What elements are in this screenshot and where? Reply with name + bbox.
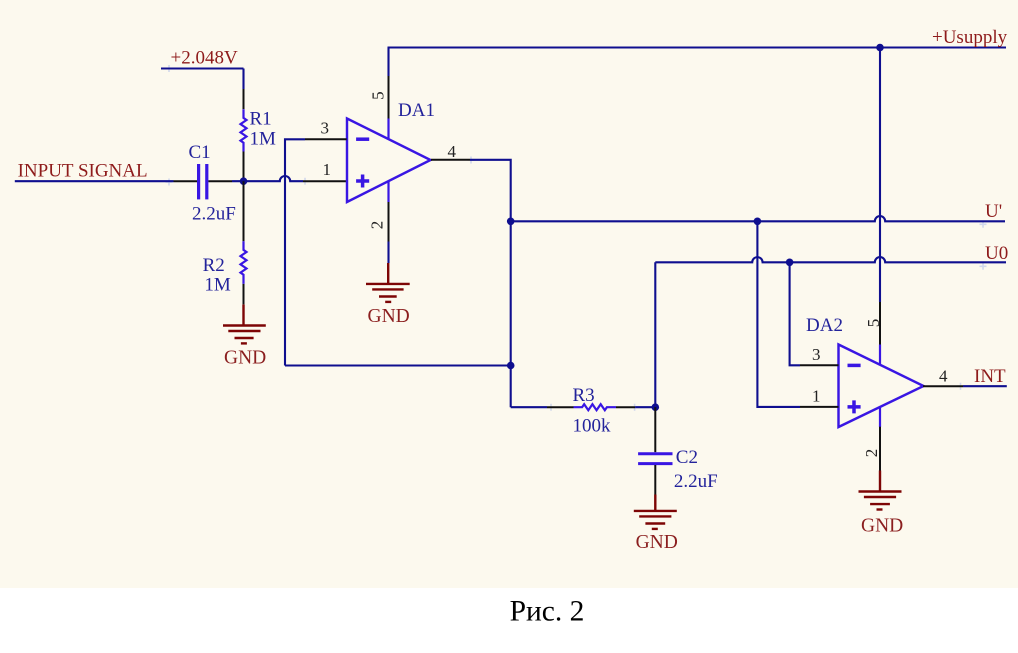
- svg-text:2: 2: [368, 221, 387, 230]
- svg-text:100k: 100k: [573, 415, 612, 436]
- wire loop bottom horizontal: [285, 364, 511, 366]
- svg-text:R1: R1: [250, 108, 272, 129]
- wire pin4 DA2 INT: [963, 385, 1007, 387]
- svg-text:C2: C2: [676, 447, 698, 468]
- faint grid crosses: [166, 65, 987, 411]
- wire pin4 DA1 to U': [470, 160, 511, 222]
- ground under DA2: [859, 471, 902, 510]
- pin 1 stub DA2: [800, 406, 839, 408]
- svg-text:U': U': [985, 201, 1002, 222]
- capacitor C1: [174, 142, 236, 225]
- svg-text:DA2: DA2: [806, 315, 843, 336]
- net U' wire: [511, 216, 1005, 221]
- svg-text:GND: GND: [861, 516, 903, 537]
- svg-text:2.2uF: 2.2uF: [674, 471, 718, 492]
- svg-text:5: 5: [369, 91, 388, 100]
- svg-text:C1: C1: [189, 142, 211, 163]
- wire +2.048V vertical to R1: [242, 69, 244, 90]
- svg-text:INT: INT: [974, 366, 1006, 387]
- pin 3 stub DA1: [305, 138, 347, 140]
- svg-text:DA1: DA1: [398, 100, 435, 121]
- resistor R1: [241, 89, 277, 181]
- svg-text:1: 1: [812, 387, 821, 406]
- wire pin3 DA2 to U0: [790, 262, 800, 365]
- node junction +Usupply: [876, 44, 884, 52]
- svg-text:4: 4: [939, 367, 948, 386]
- wire input signal: [15, 180, 174, 182]
- svg-text:5: 5: [864, 319, 883, 328]
- svg-text:3: 3: [321, 119, 330, 138]
- ground under DA1: [366, 263, 410, 302]
- svg-text:GND: GND: [224, 348, 266, 369]
- pin 2 stub DA1: [388, 202, 390, 242]
- wire output vertical down: [510, 221, 512, 407]
- wire to R3: [511, 406, 547, 408]
- svg-text:+2.048V: +2.048V: [171, 48, 238, 69]
- capacitor C2: [638, 407, 718, 494]
- svg-text:R2: R2: [203, 255, 225, 276]
- resistor R3: [547, 385, 635, 437]
- pin 3 stub DA2: [800, 364, 839, 366]
- wire pin1 DA2 to U': [757, 221, 800, 407]
- wire pin2 DA1 to gnd: [387, 242, 389, 264]
- pin 2 stub DA2: [879, 427, 881, 471]
- node junction R3/C2/U0: [652, 403, 660, 411]
- pin 5 stub DA1: [388, 76, 390, 119]
- svg-text:R3: R3: [573, 385, 595, 406]
- wire pin5 DA1 to +Usupply: [387, 48, 389, 77]
- wire +2.048V horizontal: [161, 67, 244, 69]
- pin 5 stub DA2: [879, 302, 881, 345]
- wire R3 to node: [635, 406, 655, 408]
- svg-text:2.2uF: 2.2uF: [192, 204, 236, 225]
- svg-text:4: 4: [448, 142, 457, 161]
- node junction C1/R1/R2: [240, 177, 248, 185]
- svg-text:INPUT SIGNAL: INPUT SIGNAL: [18, 161, 148, 182]
- svg-text:1M: 1M: [204, 274, 231, 295]
- net U0 wire: [655, 257, 1006, 262]
- op-amp DA1: [347, 100, 435, 202]
- pin 4 stub DA2: [923, 385, 963, 387]
- svg-text:GND: GND: [368, 306, 410, 327]
- ground under R2: [223, 305, 266, 344]
- wire node up to U0: [654, 262, 656, 407]
- svg-text:3: 3: [812, 345, 821, 364]
- pin 4 stub DA1: [431, 159, 470, 161]
- svg-text:GND: GND: [636, 532, 678, 553]
- node junction U'/pin1: [754, 218, 762, 226]
- op-amp DA2: [806, 315, 924, 427]
- node junction U0/pin3: [786, 259, 794, 267]
- ground under C2: [634, 495, 677, 529]
- node junction output/U': [507, 218, 515, 226]
- svg-text:U0: U0: [985, 243, 1008, 264]
- svg-text:+Usupply: +Usupply: [932, 27, 1008, 48]
- wire C1 to pin1 with hop over loop vertical: [232, 176, 303, 181]
- resistor R2: [203, 181, 247, 304]
- svg-text:1M: 1M: [250, 129, 277, 150]
- wire +Usupply down to DA2 pin5: [879, 48, 881, 303]
- svg-text:Рис. 2: Рис. 2: [510, 596, 585, 628]
- node junction loop/output: [507, 362, 515, 370]
- svg-text:2: 2: [862, 449, 881, 458]
- svg-text:1: 1: [323, 160, 332, 179]
- wire pin3 DA1 loop: [285, 139, 305, 365]
- pin 1 stub DA1: [303, 180, 347, 182]
- net +Usupply wire: [388, 46, 1007, 48]
